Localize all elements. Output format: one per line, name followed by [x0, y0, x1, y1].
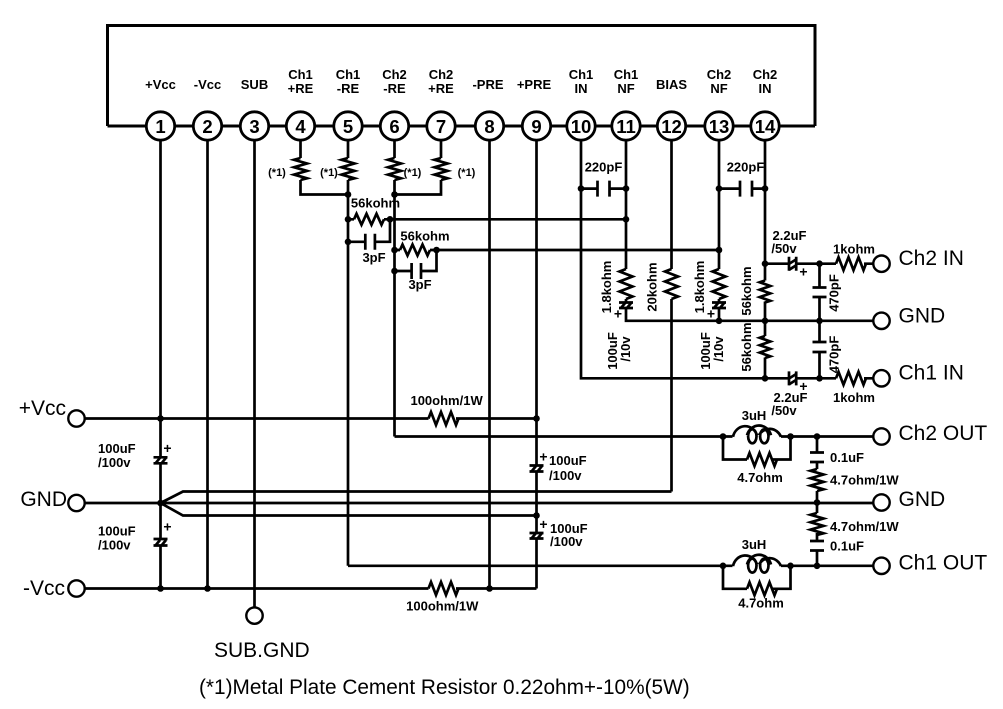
terminal +Vcc — [19, 397, 85, 427]
wire Ch2 IN line to terminal — [765, 262, 873, 265]
svg-text:/50v: /50v — [771, 241, 797, 256]
svg-text:+: + — [539, 516, 547, 532]
junction +Vcc pin9 — [533, 415, 540, 422]
svg-text:+: + — [799, 264, 807, 280]
pin 3 (SUB) — [240, 77, 268, 140]
capacitor 0.1uF lower — [810, 539, 864, 554]
junction Ch1 OUT 0.1uF — [814, 563, 821, 570]
terminal -Vcc — [23, 577, 85, 600]
wire pin7 vertical + run to pin6 node — [395, 140, 442, 194]
node Ch1 IN net — [762, 375, 769, 382]
svg-text:+Vcc: +Vcc — [19, 397, 66, 420]
terminal GND left — [20, 488, 84, 511]
svg-text:1kohm: 1kohm — [833, 390, 875, 405]
svg-text:+RE: +RE — [288, 81, 314, 96]
terminal Ch1 OUT — [873, 552, 987, 575]
junction 3pF Ch2 left — [391, 268, 398, 275]
capacitor 2.2uF/50v Ch1 IN (polarized) — [771, 371, 807, 418]
junction 220pF Ch2 right — [762, 185, 769, 192]
capacitor 100uF/10v pin11 (polarized) — [605, 303, 633, 370]
junction 56kohm Ch2 right — [433, 247, 440, 254]
svg-text:Ch1: Ch1 — [336, 67, 361, 82]
svg-text:3pF: 3pF — [362, 250, 385, 265]
capacitor 100uF/100v upper left (polarized) — [98, 440, 172, 470]
resistor (*1) 0.22ohm pin6 — [388, 158, 422, 180]
resistor (*1) 0.22ohm pin7 — [435, 158, 476, 180]
terminal Ch2 OUT — [873, 422, 987, 445]
wire 0.1uF / 4.7ohm/1W column upper x=817 — [816, 437, 819, 503]
wire +Vcc rail — [85, 417, 537, 420]
wire pin11 vertical (Ch1 NF, with resistor+cap gaps) + IN-GND corner — [626, 140, 873, 321]
wire Ch1 IN 2.2uF / 1kohm line to terminal — [765, 377, 873, 380]
junction input GND 470pF — [816, 318, 823, 325]
svg-text:/100v: /100v — [98, 455, 131, 470]
pin 10 (Ch1 IN) — [567, 67, 595, 140]
junction Ch1 NF node — [623, 216, 630, 223]
svg-text:Ch2: Ch2 — [429, 67, 454, 82]
junction +Vcc pin1 — [157, 415, 164, 422]
capacitor 470pF upper — [813, 274, 842, 312]
wire 3pF row2 parallel loop — [395, 250, 437, 271]
wire pin8 vertical (-PRE to -Vcc line) — [488, 140, 491, 588]
resistor 1.8kohm pin13 — [692, 261, 726, 314]
pin 11 (Ch1 NF) — [612, 67, 640, 140]
svg-text:/100v: /100v — [98, 538, 131, 553]
junction GND 100uF caps — [533, 512, 540, 519]
resistor 4.7ohm/1W lower — [811, 513, 900, 535]
junction 220pF Ch1 left — [578, 185, 585, 192]
svg-text:100uF: 100uF — [98, 524, 136, 539]
pin 14 (Ch2 IN) — [751, 67, 779, 140]
junction Ch2 NF node — [716, 247, 723, 254]
terminal GND output side — [873, 488, 945, 511]
wire GND fan from left terminal — [85, 492, 873, 516]
wire 3pF row1 parallel loop — [348, 219, 390, 242]
junction 56kohm bias mid — [762, 318, 769, 325]
node GND star point — [157, 500, 164, 507]
wire Ch2 OUT line — [395, 435, 874, 438]
svg-text:Ch1: Ch1 — [569, 67, 594, 82]
svg-text:4.7ohm: 4.7ohm — [738, 596, 784, 611]
pin 5 (Ch1 -RE) — [334, 67, 362, 140]
svg-text:GND: GND — [899, 488, 946, 511]
junction Ch2 OUT coil left — [720, 433, 727, 440]
capacitor 100uF/10v pin13 (polarized) — [698, 303, 726, 370]
svg-text:4: 4 — [295, 116, 306, 137]
capacitor 220pF pins 10-11 — [585, 160, 623, 197]
junction pin13 to input GND — [716, 318, 723, 325]
svg-text:-RE: -RE — [337, 81, 360, 96]
svg-text:+: + — [614, 306, 622, 322]
wire pin5 vertical (Ch1 -RE down to Ch1 OUT) — [347, 140, 350, 566]
junction Ch2 OUT coil right — [787, 433, 794, 440]
junction pin6-pin7 RE net — [391, 191, 398, 198]
svg-text:3: 3 — [249, 116, 259, 137]
svg-text:+: + — [707, 306, 715, 322]
wire -Vcc rail — [85, 587, 537, 590]
pin 13 (Ch2 NF) — [705, 67, 733, 140]
svg-text:1kohm: 1kohm — [833, 242, 875, 257]
svg-text:13: 13 — [709, 116, 730, 137]
resistor 100ohm/1W +Vcc — [410, 393, 483, 425]
wire 56kohm row2 output line to pin13 — [395, 249, 720, 252]
resistor 1kohm Ch2 IN — [833, 242, 875, 271]
svg-text:(*1): (*1) — [404, 167, 422, 179]
svg-text:7: 7 — [436, 116, 446, 137]
pin 12 (BIAS) — [656, 77, 687, 140]
capacitor 100uF/100v lower left (polarized) — [98, 519, 172, 553]
junction 56kohm Ch1 left — [345, 216, 352, 223]
svg-text:56kohm: 56kohm — [739, 266, 754, 315]
wire 470pF column x=819.5 — [818, 264, 821, 379]
wire pin10 vertical + Ch1 IN line — [581, 140, 765, 378]
capacitor 3pF Ch2 feedback — [408, 263, 431, 292]
svg-text:(*1)Metal Plate Cement Resisto: (*1)Metal Plate Cement Resistor 0.22ohm+… — [199, 676, 690, 699]
junction 56kohm Ch1 right — [387, 216, 394, 223]
svg-text:Ch2: Ch2 — [382, 67, 407, 82]
svg-text:9: 9 — [531, 116, 541, 137]
svg-text:Ch1: Ch1 — [614, 67, 639, 82]
svg-text:+Vcc: +Vcc — [145, 77, 176, 92]
junction pin4-pin5 RE net — [345, 191, 352, 198]
wire pin1 vertical (+Vcc rail down, with cap gaps) — [159, 140, 162, 588]
svg-text:3uH: 3uH — [742, 537, 767, 552]
wire 4.7ohm loop upper — [723, 437, 791, 460]
svg-text:20kohm: 20kohm — [645, 262, 660, 311]
capacitor 220pF pins 13-14 — [727, 160, 765, 197]
svg-text:56kohm: 56kohm — [351, 196, 400, 211]
svg-text:4.7ohm/1W: 4.7ohm/1W — [830, 473, 899, 488]
pin 2 (-Vcc) — [193, 77, 221, 140]
wire pin3 vertical (SUB to SUB.GND) — [253, 140, 256, 607]
junction GND 4.7ohm/1W — [814, 499, 821, 506]
svg-text:470pF: 470pF — [827, 336, 842, 374]
svg-text:Ch2 OUT: Ch2 OUT — [899, 422, 988, 445]
inductor 3uH Ch1 OUT — [733, 537, 781, 573]
svg-text:2: 2 — [202, 116, 212, 137]
resistor 56kohm Ch2 feedback — [400, 229, 450, 256]
svg-text:IN: IN — [759, 81, 772, 96]
wire pin12 vertical (BIAS, with 20kohm gap) — [670, 140, 673, 491]
junction Ch2 OUT 0.1uF — [814, 433, 821, 440]
wire pin14 vertical (Ch2 IN) — [764, 140, 767, 264]
resistor 100ohm/1W -Vcc — [406, 582, 479, 614]
svg-text:56kohm: 56kohm — [400, 229, 449, 244]
resistor 1.8kohm pin11 — [599, 261, 633, 314]
resistor (*1) 0.22ohm pin5 — [320, 158, 354, 180]
svg-text:Ch2: Ch2 — [707, 67, 732, 82]
svg-text:Ch1 OUT: Ch1 OUT — [899, 552, 988, 575]
svg-text:(*1): (*1) — [458, 167, 476, 179]
svg-text:4.7ohm: 4.7ohm — [737, 470, 783, 485]
svg-text:8: 8 — [484, 116, 494, 137]
terminal Ch1 IN — [873, 362, 964, 387]
junction -Vcc pin1 cap — [157, 585, 164, 592]
svg-text:+RE: +RE — [428, 81, 454, 96]
svg-text:NF: NF — [617, 81, 634, 96]
svg-text:+: + — [539, 449, 547, 465]
svg-text:0.1uF: 0.1uF — [830, 539, 864, 554]
svg-text:100ohm/1W: 100ohm/1W — [410, 393, 483, 408]
wire 0.1uF / 4.7ohm/1W column lower x=817 — [816, 503, 819, 566]
capacitor 100uF/100v mid lower (polarized) — [530, 516, 588, 549]
resistor 56kohm Ch1 feedback — [351, 196, 400, 225]
junction Ch1 OUT coil right — [787, 563, 794, 570]
svg-text:3uH: 3uH — [742, 408, 767, 423]
resistor 4.7ohm/1W upper — [811, 469, 900, 491]
svg-text:-PRE: -PRE — [472, 77, 503, 92]
svg-text:100ohm/1W: 100ohm/1W — [406, 599, 479, 614]
pin 4 (Ch1 +RE) — [286, 67, 314, 140]
svg-text:GND: GND — [899, 305, 946, 328]
svg-text:6: 6 — [389, 116, 399, 137]
junction 220pF Ch2 left — [716, 185, 723, 192]
terminal SUB.GND — [214, 607, 310, 662]
svg-text:3pF: 3pF — [408, 277, 431, 292]
svg-text:56kohm: 56kohm — [739, 322, 754, 371]
pin 9 (+PRE) — [517, 77, 552, 140]
svg-text:IN: IN — [575, 81, 588, 96]
svg-text:(*1): (*1) — [320, 167, 338, 179]
svg-text:11: 11 — [616, 116, 636, 137]
wire pin13 vertical (Ch2 NF, with resistor+cap gaps) — [718, 140, 721, 321]
svg-text:/50v: /50v — [771, 403, 797, 418]
wire 4.7ohm loop lower — [723, 566, 791, 589]
svg-text:5: 5 — [343, 116, 353, 137]
capacitor 100uF/100v mid upper (polarized) — [530, 449, 587, 484]
svg-text:+PRE: +PRE — [517, 77, 552, 92]
terminal Ch2 IN — [873, 247, 964, 272]
capacitor 2.2uF/50v Ch2 IN (polarized) — [771, 228, 807, 280]
svg-text:220pF: 220pF — [585, 160, 623, 175]
svg-text:SUB: SUB — [241, 77, 268, 92]
resistor 56kohm lower (input bias) — [739, 322, 770, 371]
wire Ch1 OUT line — [348, 564, 873, 567]
pin 6 (Ch2 -RE) — [380, 67, 408, 140]
svg-text:NF: NF — [710, 81, 727, 96]
capacitor 0.1uF upper — [810, 450, 864, 465]
wire 56kohm row1 output line to pin11 — [348, 218, 626, 221]
wire 220pF pair pins 13-14 — [719, 187, 765, 190]
wire pin2 vertical (-Vcc) — [206, 140, 209, 588]
svg-text:220pF: 220pF — [727, 160, 765, 175]
svg-text:+: + — [163, 440, 171, 456]
svg-text:0.1uF: 0.1uF — [830, 450, 864, 465]
junction Ch1 OUT coil left — [720, 563, 727, 570]
capacitor 3pF Ch1 feedback — [362, 234, 385, 265]
svg-text:100uF: 100uF — [98, 441, 136, 456]
junction 470pF lower — [816, 375, 823, 382]
note (*1) Metal Plate Cement Resistor — [199, 676, 690, 699]
junction 220pF Ch1 right — [623, 185, 630, 192]
capacitor 470pF lower — [813, 336, 842, 374]
svg-text:100uF: 100uF — [549, 453, 587, 468]
svg-text:12: 12 — [661, 116, 682, 137]
wire 220pF pair pins 10-11 — [581, 187, 626, 190]
wire pin6 vertical (Ch2 -RE down to Ch2 OUT) — [393, 140, 396, 436]
junction -Vcc pin2 — [204, 585, 211, 592]
svg-text:+: + — [163, 519, 171, 535]
svg-text:Ch1: Ch1 — [288, 67, 313, 82]
svg-text:1.8kohm: 1.8kohm — [599, 261, 614, 314]
svg-text:4.7ohm/1W: 4.7ohm/1W — [830, 519, 899, 534]
svg-text:-Vcc: -Vcc — [23, 577, 65, 600]
resistor 56kohm upper (input bias) — [739, 266, 770, 315]
resistor 4.7ohm Ch1 OUT — [738, 582, 784, 610]
resistor 20kohm pin12 (BIAS) — [645, 262, 679, 311]
IC body U1 outline — [108, 26, 816, 127]
svg-text:/10v: /10v — [711, 336, 726, 362]
terminal GND input side — [873, 305, 945, 329]
svg-text:1.8kohm: 1.8kohm — [692, 261, 707, 314]
inductor 3uH Ch2 OUT — [733, 408, 781, 443]
junction 56kohm Ch2 left — [391, 247, 398, 254]
resistor (*1) 0.22ohm pin4 — [268, 158, 307, 180]
svg-text:/100v: /100v — [549, 468, 582, 483]
resistor 4.7ohm Ch2 OUT — [737, 453, 783, 485]
svg-text:BIAS: BIAS — [656, 77, 687, 92]
resistor 1kohm Ch1 IN — [833, 372, 875, 405]
junction 3pF Ch1 left — [345, 239, 352, 246]
svg-text:14: 14 — [755, 116, 776, 137]
pin 7 (Ch2 +RE) — [427, 67, 455, 140]
svg-text:/10v: /10v — [618, 336, 633, 362]
svg-text:Ch1 IN: Ch1 IN — [899, 362, 964, 385]
svg-text:Ch2: Ch2 — [753, 67, 778, 82]
svg-text:Ch2 IN: Ch2 IN — [899, 247, 964, 270]
wire pin9 vertical (+PRE down, with cap gaps) — [535, 140, 538, 588]
svg-text:(*1): (*1) — [268, 167, 286, 179]
svg-text:10: 10 — [571, 116, 592, 137]
wire pin4 vertical + run to pin5 node — [301, 140, 349, 194]
svg-text:470pF: 470pF — [827, 274, 842, 312]
node Ch2 IN net — [762, 260, 769, 267]
junction 470pF upper — [816, 260, 823, 267]
wire 56kohm feedback column x=765 — [764, 264, 767, 379]
pin 8 (-PRE) — [472, 77, 503, 140]
pin 1 (+Vcc) — [145, 77, 176, 140]
svg-text:GND: GND — [20, 488, 67, 511]
svg-text:1: 1 — [155, 116, 165, 137]
svg-text:-RE: -RE — [383, 81, 406, 96]
svg-text:/100v: /100v — [550, 534, 583, 549]
svg-text:-Vcc: -Vcc — [194, 77, 221, 92]
svg-text:SUB.GND: SUB.GND — [214, 639, 310, 662]
junction -Vcc pin8 — [486, 585, 493, 592]
